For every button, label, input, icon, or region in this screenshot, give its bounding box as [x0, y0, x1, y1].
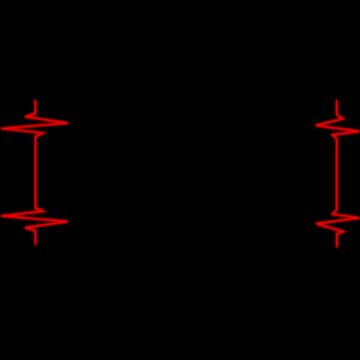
left heartbeat trace halo: [1, 100, 359, 248]
left heartbeat trace core: [1, 100, 359, 248]
right heartbeat trace core: [316, 100, 359, 247]
right heartbeat trace halo: [316, 100, 359, 247]
